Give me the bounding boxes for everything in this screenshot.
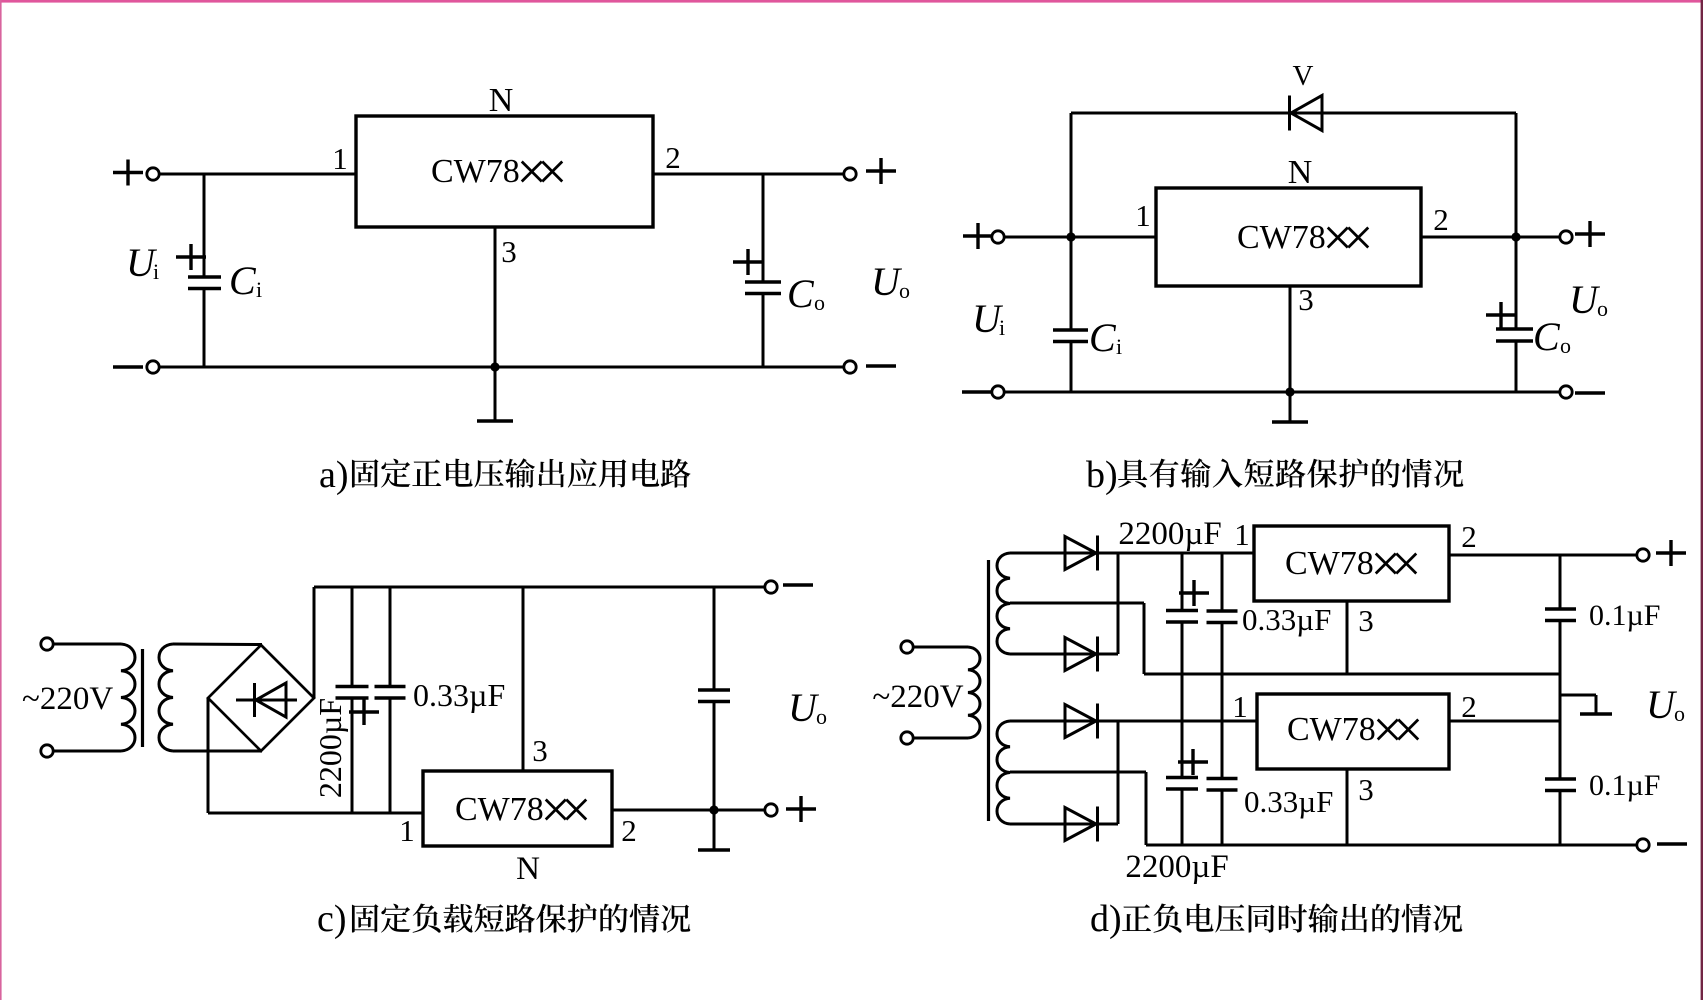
svg-text:o: o bbox=[899, 278, 910, 303]
svg-text:C: C bbox=[787, 271, 815, 316]
svg-text:i: i bbox=[256, 277, 262, 302]
svg-text:i: i bbox=[999, 315, 1005, 340]
svg-text:2: 2 bbox=[1461, 689, 1477, 724]
svg-text:N: N bbox=[1288, 154, 1313, 191]
svg-text:3: 3 bbox=[1358, 772, 1374, 807]
svg-text:1: 1 bbox=[399, 813, 415, 848]
svg-text:o: o bbox=[1674, 701, 1685, 726]
svg-text:1: 1 bbox=[1232, 689, 1248, 724]
svg-text:CW78: CW78 bbox=[1237, 219, 1326, 256]
svg-text:d): d) bbox=[1090, 898, 1122, 940]
svg-text:1: 1 bbox=[332, 141, 348, 176]
svg-text:0.33µF: 0.33µF bbox=[413, 677, 505, 713]
svg-text:3: 3 bbox=[501, 234, 517, 269]
svg-text:1: 1 bbox=[1234, 517, 1250, 552]
svg-text:CW78: CW78 bbox=[431, 153, 520, 190]
svg-text:3: 3 bbox=[1298, 282, 1314, 317]
svg-text:CW78: CW78 bbox=[1287, 711, 1376, 748]
svg-text:V: V bbox=[1293, 60, 1314, 92]
svg-text:0.33µF: 0.33µF bbox=[1244, 784, 1333, 819]
svg-text:C: C bbox=[1533, 314, 1561, 359]
svg-text:3: 3 bbox=[532, 733, 548, 768]
svg-text:o: o bbox=[814, 290, 825, 315]
svg-text:i: i bbox=[153, 259, 159, 284]
svg-text:N: N bbox=[516, 851, 540, 887]
svg-text:o: o bbox=[1560, 333, 1571, 358]
svg-text:0.33µF: 0.33µF bbox=[1242, 602, 1331, 637]
svg-text:N: N bbox=[489, 82, 514, 119]
svg-text:3: 3 bbox=[1358, 603, 1374, 638]
svg-text:b): b) bbox=[1086, 454, 1118, 496]
svg-text:o: o bbox=[816, 704, 827, 729]
svg-text:C: C bbox=[229, 258, 257, 303]
svg-text:~220V: ~220V bbox=[22, 681, 113, 717]
svg-text:~220V: ~220V bbox=[872, 679, 963, 715]
svg-text:2200µF: 2200µF bbox=[312, 698, 348, 798]
svg-text:2: 2 bbox=[621, 813, 637, 848]
svg-text:o: o bbox=[1597, 296, 1608, 321]
svg-text:C: C bbox=[1089, 315, 1117, 360]
svg-text:0.1µF: 0.1µF bbox=[1589, 769, 1660, 802]
svg-text:2200µF: 2200µF bbox=[1118, 516, 1221, 552]
svg-text:1: 1 bbox=[1135, 198, 1151, 233]
svg-text:a): a) bbox=[319, 454, 349, 496]
svg-text:0.1µF: 0.1µF bbox=[1589, 599, 1660, 632]
svg-text:CW78: CW78 bbox=[455, 791, 544, 828]
svg-text:2200µF: 2200µF bbox=[1125, 849, 1228, 885]
svg-text:2: 2 bbox=[1461, 519, 1477, 554]
svg-text:CW78: CW78 bbox=[1285, 545, 1374, 582]
svg-text:2: 2 bbox=[665, 140, 681, 175]
svg-text:2: 2 bbox=[1433, 202, 1449, 237]
svg-text:c): c) bbox=[317, 898, 347, 940]
svg-text:i: i bbox=[1116, 334, 1122, 359]
